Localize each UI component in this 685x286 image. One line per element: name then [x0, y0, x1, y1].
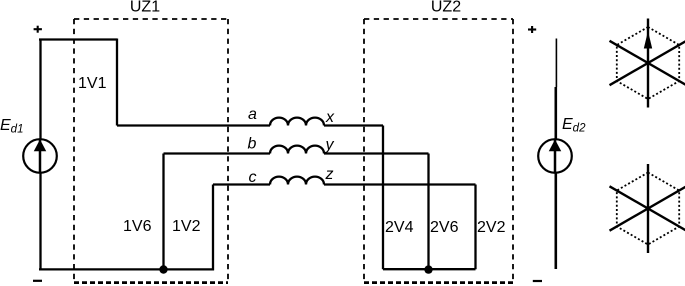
svg-text:UZ1: UZ1: [130, 0, 160, 16]
junction dot 2V6/bus: [424, 265, 432, 273]
wire: valve 1V1 vertical: [116, 39, 118, 126]
wire: bottom bus UZ2: [383, 268, 476, 270]
wire: phase a left: [117, 124, 270, 126]
svg-text:2V4: 2V4: [385, 219, 414, 236]
phasor star bottom: [610, 164, 685, 253]
svg-text:1V6: 1V6: [123, 218, 152, 235]
UZ2 box: [364, 19, 513, 284]
svg-text:z: z: [325, 166, 334, 183]
source E_d1: [23, 139, 57, 173]
svg-text:b: b: [248, 136, 257, 153]
source E_d2: [538, 139, 572, 173]
wire: valve 1V6 vertical: [162, 154, 164, 270]
wire: left DC loop vertical: [39, 40, 41, 270]
inductor a: [270, 118, 324, 126]
wire: top horizontal to 1V1: [39, 38, 117, 40]
svg-text:1V1: 1V1: [78, 75, 107, 92]
plus terminal left: [34, 26, 42, 33]
junction dot 1V6/bus: [159, 265, 167, 273]
minus terminal right: [533, 280, 542, 282]
inductor c: [270, 177, 324, 185]
svg-text:UZ2: UZ2: [431, 0, 461, 16]
wire: E_d2 DC line upper thin segment: [555, 39, 557, 88]
phasor star top (with arrow): [610, 19, 685, 108]
wire: phase c right: [324, 183, 476, 185]
svg-text:2V6: 2V6: [430, 219, 459, 236]
svg-text:c: c: [249, 169, 257, 186]
svg-text:y: y: [325, 137, 335, 154]
svg-text:1V2: 1V2: [172, 218, 201, 235]
wire: phase c left: [213, 183, 270, 185]
wire: phase b left: [164, 152, 271, 154]
svg-text:x: x: [325, 109, 335, 126]
wire: valve 2V4 vertical: [382, 126, 384, 270]
wire: phase b right: [324, 152, 429, 154]
wire: bottom bus UZ1: [39, 268, 214, 270]
wire: valve 2V2 vertical: [474, 185, 476, 270]
svg-text:a: a: [248, 106, 257, 123]
wire: valve 2V6 vertical: [427, 154, 429, 270]
UZ1 box: [74, 19, 228, 284]
inductor b: [270, 146, 324, 154]
minus terminal left: [33, 280, 42, 282]
wire: phase a right: [324, 124, 383, 126]
svg-text:2V2: 2V2: [477, 219, 506, 236]
wire: E_d2 DC line: [554, 87, 557, 269]
wire: valve 1V2 vertical: [212, 185, 214, 271]
plus terminal right: [528, 26, 536, 33]
